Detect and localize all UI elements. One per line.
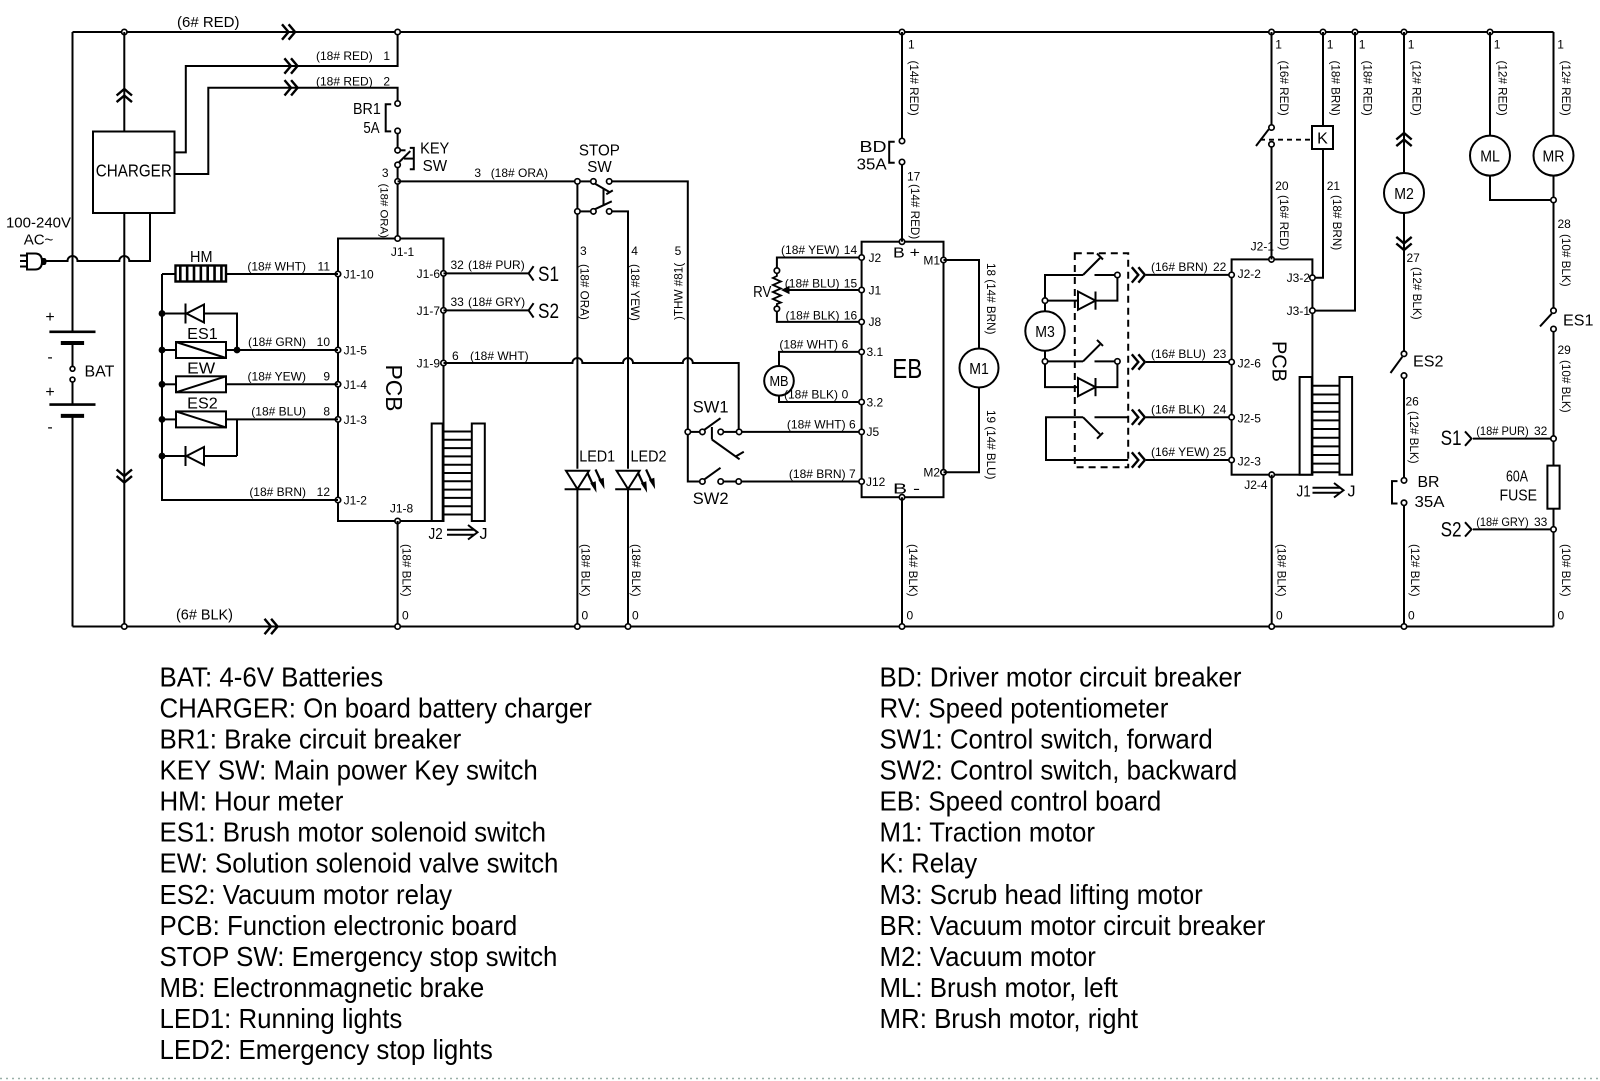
- svg-text:LED1: Running lights: LED1: Running lights: [160, 1003, 403, 1034]
- wire row4 to J2-3 (16# YEW) 25: [1146, 459, 1232, 461]
- svg-text:J1-9: J1-9: [417, 357, 441, 371]
- wire ES1 to S1 node 29 (10# BLK): [1553, 332, 1555, 436]
- svg-text:1: 1: [1408, 38, 1415, 52]
- svg-text:MR: MR: [1543, 148, 1565, 165]
- svg-text:AC~: AC~: [24, 232, 54, 249]
- svg-text:J2-4: J2-4: [1244, 478, 1268, 492]
- circuit breaker BR1 5A: [395, 101, 400, 106]
- terminal 3.2: [859, 399, 864, 404]
- electromagnetic brake MB: [764, 366, 794, 396]
- terminal J1-4: [335, 382, 340, 387]
- svg-text:J1-10: J1-10: [344, 268, 374, 282]
- svg-text:0: 0: [1276, 609, 1283, 623]
- svg-text:J2-6: J2-6: [1238, 356, 1262, 370]
- svg-text:LED1: LED1: [579, 449, 615, 466]
- wire 3 (18# ORA) key sw to stop sw: [398, 180, 578, 182]
- svg-text:(16# RED): (16# RED): [1277, 195, 1290, 250]
- svg-text:BD: BD: [860, 139, 887, 156]
- break marks M3 row4: [1132, 452, 1139, 467]
- wire battery left rail: [72, 32, 74, 331]
- break marks on top bus: [282, 24, 289, 39]
- speed control board EB: [862, 242, 944, 498]
- battery BAT: [49, 330, 95, 333]
- terminal J1-9: [441, 360, 446, 365]
- svg-text:0: 0: [1408, 609, 1415, 623]
- svg-text:STOP SW: Emergency stop switch: STOP SW: Emergency stop switch: [160, 941, 558, 972]
- svg-text:(14# RED): (14# RED): [907, 61, 920, 116]
- svg-text:33: 33: [451, 295, 465, 309]
- svg-text:21: 21: [1327, 179, 1341, 193]
- svg-text:J3-1: J3-1: [1287, 304, 1311, 318]
- node S2 junction: [1551, 527, 1556, 532]
- svg-text:0: 0: [907, 609, 914, 623]
- svg-text:3: 3: [580, 244, 587, 258]
- svg-text:23: 23: [1213, 347, 1227, 361]
- wire ES2 to BR 26 (12# BLK): [1403, 378, 1405, 477]
- terminal M1: [941, 257, 946, 262]
- svg-text:MB: Electronmagnetic brake: MB: Electronmagnetic brake: [160, 972, 485, 1003]
- svg-text:(18# BRN): (18# BRN): [1330, 195, 1343, 250]
- svg-text:(18# YEW): (18# YEW): [628, 264, 641, 321]
- wire top bus corner to MR (12# RED): [1553, 32, 1555, 136]
- svg-text:(18# BLK): (18# BLK): [579, 544, 592, 597]
- terminal J1-2: [335, 497, 340, 502]
- svg-text:(12# BLK): (12# BLK): [1410, 267, 1423, 320]
- wire MB to EB 3.1 (18# WHT) 6: [779, 352, 862, 366]
- svg-text:J1-5: J1-5: [344, 344, 368, 358]
- vacuum motor M2: [1384, 173, 1424, 213]
- svg-text:12: 12: [317, 485, 331, 499]
- svg-text:J5: J5: [867, 425, 880, 439]
- svg-text:MR: Brush motor, right: MR: Brush motor, right: [880, 1003, 1139, 1034]
- svg-text:24: 24: [1213, 402, 1227, 416]
- limit switch M3 row3: [1046, 417, 1128, 460]
- svg-text:(18# WHT): (18# WHT): [470, 349, 529, 363]
- key switch KEY SW: [395, 148, 400, 153]
- svg-text:2: 2: [383, 74, 390, 88]
- svg-text:4: 4: [631, 244, 638, 258]
- wire LED1 to bottom bus (18# BLK): [576, 489, 578, 626]
- svg-text:17: 17: [907, 170, 921, 184]
- svg-text:28: 28: [1558, 217, 1572, 231]
- wire top bus to ML (12# RED): [1489, 32, 1491, 136]
- svg-text:SW1: SW1: [693, 399, 729, 417]
- svg-text:15: 15: [844, 277, 858, 291]
- wire relay coil to J3-2 21 (18# BRN): [1315, 149, 1323, 278]
- svg-text:FUSE: FUSE: [1500, 488, 1538, 505]
- svg-text:10: 10: [317, 335, 331, 349]
- svg-text:SW: SW: [587, 159, 612, 176]
- svg-text:(18# BLK): (18# BLK): [1275, 544, 1288, 597]
- wire MB to EB 3.2 (18# BLK) 0: [779, 396, 862, 402]
- node top bus to charger: [122, 29, 127, 34]
- svg-text:25: 25: [1213, 445, 1227, 459]
- terminal 3.1: [859, 349, 864, 354]
- svg-text:-: -: [47, 349, 52, 366]
- svg-text:BR1: BR1: [353, 101, 381, 118]
- svg-text:(18# BRN): (18# BRN): [789, 467, 846, 481]
- wire stop sw pole1 out wire 5: [612, 181, 688, 429]
- terminal J1-5: [335, 347, 340, 352]
- svg-text:32: 32: [1534, 424, 1548, 438]
- svg-text:ES1: Brush motor solenoid swit: ES1: Brush motor solenoid switch: [160, 817, 547, 848]
- svg-text:K: K: [1317, 131, 1328, 148]
- svg-text:20: 20: [1275, 179, 1289, 193]
- svg-text:J1: J1: [1297, 484, 1311, 501]
- svg-text:J12: J12: [866, 475, 886, 489]
- svg-text:3.1: 3.1: [867, 345, 884, 359]
- wire HM to J1-10 (18# WHT) 11: [226, 273, 338, 275]
- svg-text:18 (14# BRN): 18 (14# BRN): [984, 263, 997, 335]
- svg-text:(18# ORA): (18# ORA): [378, 184, 390, 239]
- wire EB M1 to motor M1 18 (14# BRN): [944, 260, 980, 349]
- wire top bus to BD (14# RED): [899, 29, 904, 34]
- terminal J2-2: [1229, 272, 1234, 277]
- svg-text:(12# BLK): (12# BLK): [1408, 544, 1421, 597]
- svg-text:(18# BLU): (18# BLU): [251, 405, 306, 419]
- terminal J12: [859, 479, 864, 484]
- svg-text:(18# BLK): (18# BLK): [400, 544, 413, 597]
- svg-text:PCB: PCB: [381, 365, 407, 412]
- terminal J2-3: [1229, 457, 1234, 462]
- svg-text:ML: ML: [1480, 148, 1500, 165]
- svg-text:ES2: ES2: [187, 396, 218, 413]
- node top bus 16# RED line: [1269, 29, 1274, 34]
- diode M3 down: [1045, 364, 1078, 387]
- svg-text:SW2: SW2: [693, 490, 729, 508]
- svg-text:CHARGER: CHARGER: [96, 161, 172, 181]
- svg-text:M1: Traction motor: M1: Traction motor: [880, 817, 1096, 848]
- svg-text:HM: HM: [190, 249, 213, 266]
- wire top bus to M2 with break (12# RED): [1403, 32, 1405, 173]
- svg-text:BD: Driver motor circuit break: BD: Driver motor circuit breaker: [880, 661, 1242, 692]
- svg-text:M3: Scrub head lifting motor: M3: Scrub head lifting motor: [880, 879, 1203, 910]
- svg-text:(18# BRN): (18# BRN): [249, 485, 306, 499]
- wire J1-6 to S1 (18# PUR) 32: [444, 272, 529, 274]
- terminal J1-6: [441, 271, 446, 276]
- svg-text:0: 0: [632, 609, 639, 623]
- svg-text:19 (14# BLU): 19 (14# BLU): [984, 410, 997, 480]
- svg-text:SW1: Control switch, forward: SW1: Control switch, forward: [880, 724, 1213, 755]
- terminal J1-1: [395, 236, 400, 241]
- wire ES1 to J1-5 (18# GRN) 10: [234, 347, 241, 354]
- terminal J1-8: [395, 518, 400, 523]
- svg-text:BR: BR: [1418, 474, 1440, 491]
- svg-text:RV: RV: [753, 284, 771, 301]
- PCB box (function electronic board): [338, 239, 444, 522]
- node S1 junction: [1551, 436, 1556, 441]
- node wire1 top bus: [395, 29, 400, 34]
- svg-text:J1-7: J1-7: [417, 304, 441, 318]
- svg-text:ES2: ES2: [1413, 354, 1444, 371]
- wire J1-8 to bottom bus (18# BLK): [397, 521, 399, 627]
- svg-text:0: 0: [402, 609, 409, 623]
- wire row1 to J2-2 (16# BRN) 22: [1146, 274, 1232, 276]
- diode M3 up: [1048, 300, 1078, 302]
- wire left rail of relay block: [161, 274, 163, 500]
- diode flyback for ES1: [159, 310, 166, 317]
- svg-text:(16# BRN): (16# BRN): [1151, 260, 1208, 274]
- svg-text:5A: 5A: [363, 120, 379, 137]
- PCB box right (function electronic board): [1232, 259, 1313, 474]
- terminal J5: [859, 429, 864, 434]
- svg-text:26: 26: [1406, 395, 1420, 409]
- svg-text:35A: 35A: [857, 157, 887, 174]
- break marks on bottom bus: [265, 619, 272, 634]
- svg-text:14: 14: [844, 243, 858, 257]
- svg-text:22: 22: [1213, 260, 1227, 274]
- switch M3 down row: [1048, 360, 1083, 362]
- wire AC plug to charger with hops: [46, 213, 150, 261]
- svg-text:(6# RED): (6# RED): [177, 14, 240, 31]
- svg-text:M3: M3: [1035, 324, 1055, 341]
- svg-text:1: 1: [1494, 38, 1501, 52]
- charger box CHARGER: [93, 132, 175, 214]
- terminal J2-1: [1269, 257, 1274, 262]
- svg-text:J1-1: J1-1: [391, 245, 415, 259]
- terminal J2: [859, 255, 864, 260]
- svg-text:(18# RED): (18# RED): [1361, 61, 1374, 116]
- svg-text:KEY: KEY: [420, 141, 449, 158]
- svg-text:J1: J1: [869, 283, 882, 297]
- svg-text:29: 29: [1558, 343, 1572, 357]
- svg-text:(12# RED): (12# RED): [1410, 61, 1423, 116]
- svg-text:1: 1: [908, 38, 915, 52]
- svg-text:-: -: [47, 419, 52, 436]
- svg-text:J2-3: J2-3: [1238, 454, 1262, 468]
- svg-text:BAT: BAT: [85, 364, 115, 381]
- svg-text:PCB: PCB: [1268, 341, 1290, 382]
- svg-text:1: 1: [1327, 38, 1334, 52]
- svg-text:(18# ORA): (18# ORA): [578, 264, 591, 320]
- svg-text:ES1: ES1: [1563, 313, 1594, 330]
- wire charger DC- to bottom bus with break: [123, 213, 125, 627]
- wire SW1 to EB J5 (18# WHT) 6: [742, 431, 862, 433]
- relay contact K: [1269, 125, 1274, 130]
- svg-text:11: 11: [318, 260, 331, 274]
- circuit breaker BD 35A: [899, 138, 904, 143]
- svg-text:S1: S1: [1441, 427, 1462, 450]
- svg-text:0: 0: [1558, 609, 1565, 623]
- svg-text:33: 33: [1534, 515, 1548, 529]
- svg-text:(10# BLK): (10# BLK): [1559, 544, 1572, 597]
- terminal J3-1: [1310, 308, 1315, 313]
- svg-text:(18# GRY): (18# GRY): [1476, 515, 1529, 529]
- svg-text:1: 1: [1359, 38, 1366, 52]
- terminal J1-10: [335, 271, 340, 276]
- wire row3 to J2-5 (16# BLK) 24: [1146, 416, 1232, 418]
- svg-text:J: J: [480, 526, 488, 543]
- wire rail to J1-2 (18# BRN) 12: [162, 456, 338, 500]
- svg-text:1: 1: [1275, 38, 1282, 52]
- break marks M3 row3: [1132, 410, 1139, 425]
- svg-text:J1-8: J1-8: [390, 502, 414, 516]
- relay coil K: [1312, 126, 1333, 149]
- svg-text:(6# BLK): (6# BLK): [176, 607, 233, 624]
- wire BR to bottom bus (12# BLK): [1403, 506, 1405, 627]
- wire EW to J1-4 (18# YEW) 9: [226, 383, 338, 385]
- svg-text:J1-6: J1-6: [417, 267, 441, 281]
- hour meter HM: [162, 273, 176, 275]
- circuit breaker BR 35A: [1401, 478, 1406, 483]
- svg-text:0: 0: [842, 387, 849, 401]
- wire BR1 to key switch: [397, 134, 399, 148]
- svg-text:EB: EB: [892, 353, 922, 384]
- wire J1-9 to SW1 net 6 (18# WHT) with hops: [444, 358, 739, 429]
- svg-text:(18# RED): (18# RED): [316, 49, 373, 63]
- terminal J1-7: [441, 308, 446, 313]
- brush solenoid contact ES1: [1551, 308, 1556, 313]
- wire row2 to J2-6 (16# BLU) 23: [1146, 361, 1232, 363]
- svg-text:M2: M2: [1394, 186, 1414, 203]
- svg-text:(16# RED): (16# RED): [1277, 61, 1290, 116]
- svg-text:(18# RED): (18# RED): [316, 74, 373, 88]
- svg-text:(10# BLK): (10# BLK): [1559, 360, 1572, 413]
- svg-text:ML: Brush motor, left: ML: Brush motor, left: [880, 972, 1119, 1003]
- brush motor left ML: [1470, 136, 1510, 176]
- svg-text:100-240V: 100-240V: [6, 215, 71, 232]
- svg-text:S2: S2: [1441, 519, 1462, 542]
- svg-text:CHARGER: On board battery char: CHARGER: On board battery charger: [160, 692, 592, 723]
- svg-text:M2: M2: [923, 466, 940, 480]
- traction motor M1: [960, 349, 999, 388]
- svg-text:(16# BLU): (16# BLU): [1151, 347, 1206, 361]
- wire RV wiper to EB J1 (18# BLU) 15: [789, 289, 862, 291]
- wire top bus to relay coil (18# BRN): [1322, 32, 1324, 126]
- wire BD to EB B+ 17 (14# RED): [901, 165, 903, 242]
- node top bus 18# RED line: [1352, 29, 1357, 34]
- svg-text:5: 5: [675, 244, 682, 258]
- svg-text:STOP: STOP: [579, 143, 620, 160]
- svg-text:(18# WHT): (18# WHT): [247, 260, 306, 274]
- svg-text:(18# WHT): (18# WHT): [787, 417, 846, 431]
- terminal J2-4: [1269, 472, 1274, 477]
- svg-text:1: 1: [383, 49, 390, 63]
- svg-text:+: +: [45, 384, 54, 401]
- terminal B-: [899, 495, 904, 500]
- svg-text:32: 32: [451, 258, 465, 272]
- switch M3 up row: [1045, 275, 1083, 298]
- svg-text:(10# BLK): (10# BLK): [1559, 234, 1572, 287]
- svg-text:B -: B -: [893, 481, 920, 498]
- terminal J2-5: [1229, 415, 1234, 420]
- svg-text:SW2: Control switch, backward: SW2: Control switch, backward: [880, 755, 1238, 786]
- solenoid valve coil EW: [159, 381, 166, 388]
- svg-text:)THW #81(: )THW #81(: [672, 263, 685, 320]
- svg-text:35A: 35A: [1415, 494, 1445, 511]
- svg-text:3: 3: [382, 166, 389, 180]
- svg-text:(18# BLK): (18# BLK): [629, 544, 642, 597]
- svg-text:(18# BLK): (18# BLK): [785, 308, 839, 322]
- nodes on bottom bus: [122, 624, 127, 629]
- svg-text:(18# PUR): (18# PUR): [1476, 424, 1529, 438]
- svg-text:M1: M1: [923, 253, 940, 267]
- svg-text:(18# YEW): (18# YEW): [248, 370, 306, 384]
- svg-text:SW: SW: [423, 158, 448, 175]
- wire ML to MR junction: [1490, 176, 1551, 200]
- node top bus ML line: [1487, 29, 1492, 34]
- svg-text:(18# GRY): (18# GRY): [468, 295, 525, 309]
- wire J1-7 to S2 (18# GRY) 33: [444, 309, 529, 311]
- svg-text:7: 7: [849, 467, 856, 481]
- terminal J2-6: [1229, 359, 1234, 364]
- wire RV bottom to EB J8 (18# BLK) 16: [777, 312, 862, 322]
- svg-text:(16# YEW): (16# YEW): [1151, 445, 1209, 459]
- dashed enclosure M3 drive: [1075, 253, 1128, 467]
- svg-text:BR1: Brake circuit breaker: BR1: Brake circuit breaker: [160, 724, 462, 755]
- wire M1 to EB M2 19 (14# BLU): [944, 388, 980, 473]
- wire M2 down with break 27 (12# BLK): [1403, 213, 1405, 351]
- svg-text:J2-5: J2-5: [1238, 412, 1262, 426]
- svg-text:(12# RED): (12# RED): [1496, 61, 1509, 116]
- relay coil ES1: [159, 347, 166, 354]
- wire relay contact to J2-1 20 (16# RED): [1271, 147, 1273, 259]
- svg-text:EB: Speed control board: EB: Speed control board: [880, 786, 1162, 817]
- wire S1 node to fuse: [1553, 441, 1555, 465]
- wire fuse to S2 node: [1553, 509, 1555, 527]
- relay coil ES2: [159, 416, 166, 423]
- svg-text:ES2: Vacuum motor relay: ES2: Vacuum motor relay: [160, 879, 453, 910]
- svg-text:J1-3: J1-3: [344, 413, 368, 427]
- svg-text:(12# RED): (12# RED): [1559, 61, 1572, 116]
- svg-text:(18# PUR): (18# PUR): [468, 258, 525, 272]
- terminal J1-3: [335, 417, 340, 422]
- svg-text:S1: S1: [538, 263, 559, 286]
- svg-text:J1-2: J1-2: [344, 494, 368, 508]
- svg-text:BR: Vacuum motor circuit break: BR: Vacuum motor circuit breaker: [880, 910, 1266, 941]
- svg-text:(18# YEW): (18# YEW): [781, 243, 839, 257]
- wire bottom bus (6# BLK) B-: [73, 626, 1554, 628]
- terminal J8: [859, 319, 864, 324]
- svg-text:RV: Speed potentiometer: RV: Speed potentiometer: [880, 692, 1169, 723]
- svg-text:J1-4: J1-4: [344, 378, 368, 392]
- connector J1 ladder on right PCB: [1300, 377, 1312, 475]
- svg-text:LED2: Emergency stop lights: LED2: Emergency stop lights: [160, 1034, 493, 1065]
- svg-text:9: 9: [323, 370, 330, 384]
- svg-text:HM: Hour meter: HM: Hour meter: [160, 786, 344, 817]
- wire top bus to relay contact (16# RED): [1271, 32, 1273, 125]
- svg-text:(14# BLK): (14# BLK): [906, 544, 919, 597]
- wire 1 (18# RED) charger to top bus: [175, 32, 398, 152]
- svg-text:6: 6: [842, 337, 849, 351]
- svg-text:6: 6: [452, 349, 459, 363]
- svg-text:J8: J8: [869, 315, 882, 329]
- svg-text:3.2: 3.2: [867, 395, 884, 409]
- svg-text:(18# BLK): (18# BLK): [784, 387, 838, 401]
- scrub head lifting motor M3: [1025, 311, 1064, 350]
- svg-text:(16# BLK): (16# BLK): [1151, 402, 1205, 416]
- svg-text:16: 16: [844, 308, 858, 322]
- svg-text:J3-2: J3-2: [1287, 271, 1311, 285]
- svg-text:J2: J2: [869, 251, 882, 265]
- svg-text:B +: B +: [893, 245, 920, 262]
- wire charger DC+ with break: [123, 32, 125, 132]
- svg-text:EW: EW: [187, 361, 216, 378]
- node top bus 18# BRN line: [1320, 29, 1325, 34]
- svg-text:27: 27: [1407, 251, 1421, 265]
- svg-text:(12# BLK): (12# BLK): [1407, 411, 1420, 464]
- switch actuator linkage: [711, 427, 713, 440]
- node ML MR junction: [1553, 176, 1555, 308]
- svg-text:BAT: 4-6V Batteries: BAT: 4-6V Batteries: [160, 661, 384, 692]
- svg-text:+: +: [45, 309, 54, 326]
- terminal B+: [899, 239, 904, 244]
- page bottom dotted rule: [0, 1078, 1600, 1080]
- node top bus 12# RED M2 line: [1401, 29, 1406, 34]
- svg-text:3: 3: [474, 166, 481, 180]
- wire S2 node to bottom bus (10# BLK): [1553, 532, 1555, 626]
- svg-text:(18# ORA): (18# ORA): [491, 166, 548, 180]
